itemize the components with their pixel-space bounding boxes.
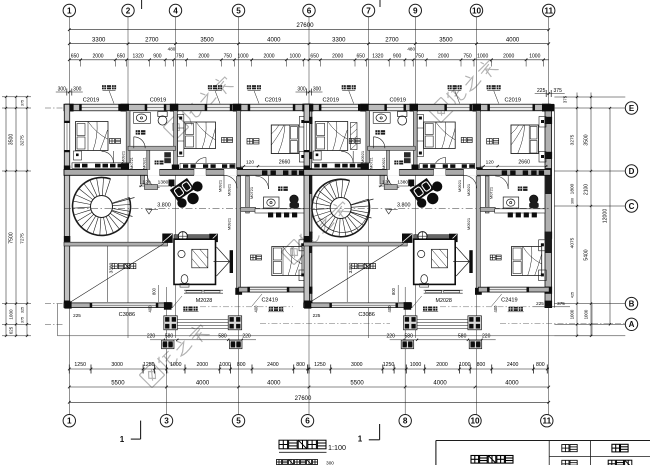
svg-text:1000: 1000 — [570, 309, 575, 319]
svg-text:3275: 3275 — [20, 135, 26, 146]
svg-text:M0921: M0921 — [227, 217, 232, 230]
svg-text:10: 10 — [472, 6, 482, 15]
svg-text:480: 480 — [407, 47, 415, 52]
svg-text:4000: 4000 — [506, 37, 520, 43]
svg-text:A: A — [629, 320, 635, 329]
svg-text:750: 750 — [224, 53, 233, 59]
svg-text:3500: 3500 — [200, 37, 214, 43]
svg-text:2400: 2400 — [507, 362, 519, 368]
svg-text:750: 750 — [463, 53, 472, 59]
svg-text:220: 220 — [242, 333, 251, 339]
svg-text:2: 2 — [126, 6, 131, 15]
svg-text:C2019: C2019 — [265, 97, 281, 103]
svg-text:650: 650 — [117, 53, 126, 59]
svg-text:375: 375 — [21, 100, 25, 106]
svg-text:375: 375 — [557, 301, 565, 306]
svg-text:M2028: M2028 — [196, 298, 212, 304]
svg-text:580: 580 — [165, 333, 174, 339]
svg-text:3000: 3000 — [351, 362, 363, 368]
svg-text:400: 400 — [254, 305, 259, 313]
svg-text:5500: 5500 — [111, 380, 125, 386]
svg-text:10: 10 — [470, 417, 480, 426]
svg-text:C2019: C2019 — [83, 97, 99, 103]
svg-text:650: 650 — [357, 53, 366, 59]
svg-text:800: 800 — [152, 287, 157, 295]
svg-text:3300: 3300 — [332, 37, 346, 43]
svg-text:1: 1 — [358, 435, 363, 444]
svg-text:3: 3 — [164, 417, 169, 426]
svg-text:2000: 2000 — [332, 53, 343, 59]
svg-text:1250: 1250 — [383, 362, 395, 368]
svg-text:4000: 4000 — [196, 380, 210, 386]
svg-text:4000: 4000 — [505, 380, 519, 386]
svg-text:1000: 1000 — [459, 362, 471, 368]
svg-text:7275: 7275 — [20, 233, 26, 244]
svg-text:D: D — [629, 167, 635, 176]
svg-text:2000: 2000 — [263, 53, 274, 59]
svg-text:B: B — [629, 300, 635, 309]
svg-text:3500: 3500 — [9, 134, 15, 146]
svg-text:650: 650 — [71, 53, 80, 59]
svg-text:2000: 2000 — [436, 362, 448, 368]
svg-text:4000: 4000 — [433, 380, 447, 386]
svg-text:800: 800 — [296, 362, 305, 368]
svg-text:750: 750 — [416, 53, 425, 59]
svg-text:1:100: 1:100 — [328, 443, 346, 452]
svg-text:1: 1 — [67, 6, 72, 15]
svg-text:650: 650 — [310, 53, 319, 59]
svg-text:3380: 3380 — [109, 262, 115, 273]
svg-text:375: 375 — [21, 317, 25, 323]
svg-text:1000: 1000 — [290, 53, 301, 59]
svg-text:1000: 1000 — [219, 362, 231, 368]
svg-text:1320: 1320 — [372, 53, 383, 59]
svg-text:1000: 1000 — [237, 53, 248, 59]
svg-text:1380: 1380 — [158, 179, 169, 185]
svg-text:300: 300 — [571, 198, 575, 204]
svg-text:5500: 5500 — [350, 380, 364, 386]
svg-text:1000: 1000 — [584, 309, 589, 319]
svg-text:1250: 1250 — [314, 362, 326, 368]
svg-text:5400: 5400 — [584, 249, 590, 260]
svg-text:300: 300 — [58, 87, 67, 93]
svg-text:M0721: M0721 — [249, 186, 254, 199]
svg-text:7500: 7500 — [9, 232, 15, 244]
svg-text:M0921: M0921 — [121, 150, 126, 163]
svg-text:400: 400 — [148, 305, 153, 313]
svg-text:1320: 1320 — [133, 53, 144, 59]
svg-text:C0919: C0919 — [150, 97, 166, 103]
svg-text:M0921: M0921 — [143, 157, 147, 169]
svg-text:1000: 1000 — [410, 362, 422, 368]
svg-text:6: 6 — [305, 417, 310, 426]
svg-text:12000: 12000 — [603, 209, 609, 224]
svg-text:2400: 2400 — [267, 362, 279, 368]
svg-text:7: 7 — [366, 6, 371, 15]
svg-text:E: E — [629, 104, 635, 113]
svg-text:225: 225 — [537, 88, 546, 94]
svg-text:3275: 3275 — [570, 134, 576, 145]
svg-text:2000: 2000 — [92, 53, 103, 59]
svg-text:1: 1 — [67, 417, 72, 426]
svg-text:2000: 2000 — [197, 362, 209, 368]
svg-text:M0921: M0921 — [218, 179, 223, 192]
svg-text:C2419: C2419 — [261, 297, 277, 303]
svg-text:27600: 27600 — [296, 22, 314, 29]
svg-text:4075: 4075 — [570, 237, 576, 248]
svg-text:425: 425 — [571, 292, 575, 298]
svg-text:300: 300 — [73, 87, 82, 93]
svg-text:3.800: 3.800 — [157, 203, 171, 209]
svg-text:5: 5 — [236, 417, 241, 426]
svg-text:300: 300 — [297, 87, 306, 93]
svg-text:750: 750 — [176, 53, 185, 59]
svg-text:300: 300 — [326, 461, 334, 465]
svg-text:27600: 27600 — [295, 396, 312, 402]
svg-text:3000: 3000 — [111, 362, 123, 368]
svg-text:11: 11 — [542, 417, 551, 426]
svg-text:225: 225 — [73, 313, 81, 318]
svg-text:225: 225 — [536, 301, 544, 306]
svg-text:900: 900 — [153, 53, 162, 59]
svg-text:3500: 3500 — [584, 134, 590, 145]
svg-text:325: 325 — [21, 307, 25, 313]
svg-text:2660: 2660 — [279, 160, 291, 166]
svg-text:11: 11 — [544, 6, 553, 15]
svg-text:800: 800 — [536, 362, 545, 368]
svg-text:480: 480 — [168, 47, 176, 52]
svg-text:2700: 2700 — [385, 37, 399, 43]
svg-text:C3086: C3086 — [119, 312, 135, 318]
svg-text:2100: 2100 — [584, 184, 590, 195]
svg-text:625: 625 — [9, 326, 14, 334]
svg-text:900: 900 — [393, 53, 402, 59]
svg-text:300: 300 — [313, 87, 322, 93]
svg-text:M0921: M0921 — [227, 183, 232, 196]
svg-text:C: C — [629, 202, 635, 211]
svg-text:1000: 1000 — [170, 362, 182, 368]
svg-text:1000: 1000 — [529, 53, 540, 59]
svg-text:M0721: M0721 — [130, 157, 134, 169]
svg-text:220: 220 — [147, 333, 156, 339]
svg-text:3300: 3300 — [92, 37, 106, 43]
svg-text:580: 580 — [218, 333, 227, 339]
svg-text:1000: 1000 — [477, 53, 488, 59]
svg-text:2000: 2000 — [198, 53, 209, 59]
svg-text:5: 5 — [236, 6, 241, 15]
svg-text:2000: 2000 — [503, 53, 514, 59]
svg-text:2000: 2000 — [438, 53, 449, 59]
svg-text:1250: 1250 — [143, 362, 155, 368]
svg-text:4000: 4000 — [267, 380, 281, 386]
svg-text:4000: 4000 — [267, 37, 281, 43]
svg-text:9: 9 — [413, 6, 418, 15]
svg-text:1800: 1800 — [570, 183, 576, 194]
svg-text:3500: 3500 — [439, 37, 453, 43]
svg-text:1000: 1000 — [9, 309, 14, 320]
svg-text:1250: 1250 — [74, 362, 86, 368]
svg-text:2700: 2700 — [145, 37, 159, 43]
svg-text:8: 8 — [403, 417, 408, 426]
svg-text:4: 4 — [173, 6, 178, 15]
svg-text:800: 800 — [477, 362, 486, 368]
svg-text:1: 1 — [120, 435, 125, 444]
svg-text:375: 375 — [554, 88, 563, 94]
svg-text:800: 800 — [237, 362, 246, 368]
svg-text:225: 225 — [313, 313, 321, 318]
svg-text:6: 6 — [307, 6, 312, 15]
svg-text:120: 120 — [246, 160, 254, 166]
svg-text:375: 375 — [563, 95, 568, 103]
